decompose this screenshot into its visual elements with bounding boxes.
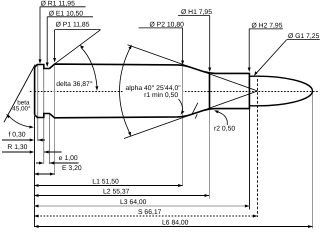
svg-text:Ø H2 7,95: Ø H2 7,95 (252, 23, 283, 30)
svg-text:45,00°: 45,00° (12, 106, 31, 113)
wire extension case mouth x=249.4 (249, 109, 251, 210)
wire extension groove right x=49.4 (49, 114, 51, 165)
wire extension neck start x=209.5 (209, 109, 211, 199)
svg-text:r2 0,50: r2 0,50 (214, 125, 235, 132)
svg-text:delta 36,87°: delta 36,87° (56, 81, 93, 88)
svg-text:L6 84,00: L6 84,00 (162, 220, 189, 227)
cone line lower (124, 91, 258, 139)
angle delta arc (81, 47, 97, 87)
r1 leader (179, 99, 183, 111)
svg-text:Ø P1 11,85: Ø P1 11,85 (56, 21, 90, 28)
svg-text:L2 55,37: L2 55,37 (103, 189, 130, 196)
svg-text:f 0,30: f 0,30 (9, 132, 26, 139)
wire extension S point dashed x=257.5 (257, 79, 259, 217)
svg-text:Ø E1 10,50: Ø E1 10,50 (49, 10, 84, 17)
angle delta line (55, 30, 101, 64)
angle beta line (4, 65, 35, 123)
svg-text:e 1,00: e 1,00 (59, 155, 78, 162)
case outline (35, 64, 250, 118)
svg-text:Ø H1 7,95: Ø H1 7,95 (181, 9, 212, 16)
svg-text:Ø G1 7,25: Ø G1 7,25 (288, 33, 320, 40)
svg-text:R 1,30: R 1,30 (7, 144, 27, 151)
case mouth vertical (248, 73, 250, 110)
wire extension shoulder start x=182.6 (182, 65, 184, 186)
angle alpha arc (120, 46, 132, 134)
svg-text:E 3,20: E 3,20 (62, 165, 82, 172)
wire extension body start x=54.5 (54, 64, 56, 175)
wire extension bullet tip x=312.5 (312, 91, 314, 229)
svg-text:L1 51,50: L1 51,50 (92, 179, 119, 186)
r2 leader (218, 112, 228, 125)
wire extension head face x=34 (34, 116, 36, 227)
svg-text:L3 64,00: L3 64,00 (120, 199, 147, 206)
svg-text:alpha 40° 25'44,0": alpha 40° 25'44,0" (126, 85, 182, 92)
wire extension rim chamfer x=37.8 (37, 65, 39, 141)
centerline (30, 91, 318, 93)
wire extension groove left x=43.7 (43, 69, 45, 165)
svg-text:Ø P2 10,80: Ø P2 10,80 (150, 22, 185, 29)
bullet ogive (249, 76, 312, 106)
svg-text:r1 min 0,50: r1 min 0,50 (144, 92, 178, 99)
angle beta arc (8, 116, 30, 128)
neck start vertical (209, 73, 211, 110)
cone line upper (shoulder extended to S apex) (128, 45, 258, 91)
svg-text:S 66,17: S 66,17 (138, 209, 162, 216)
